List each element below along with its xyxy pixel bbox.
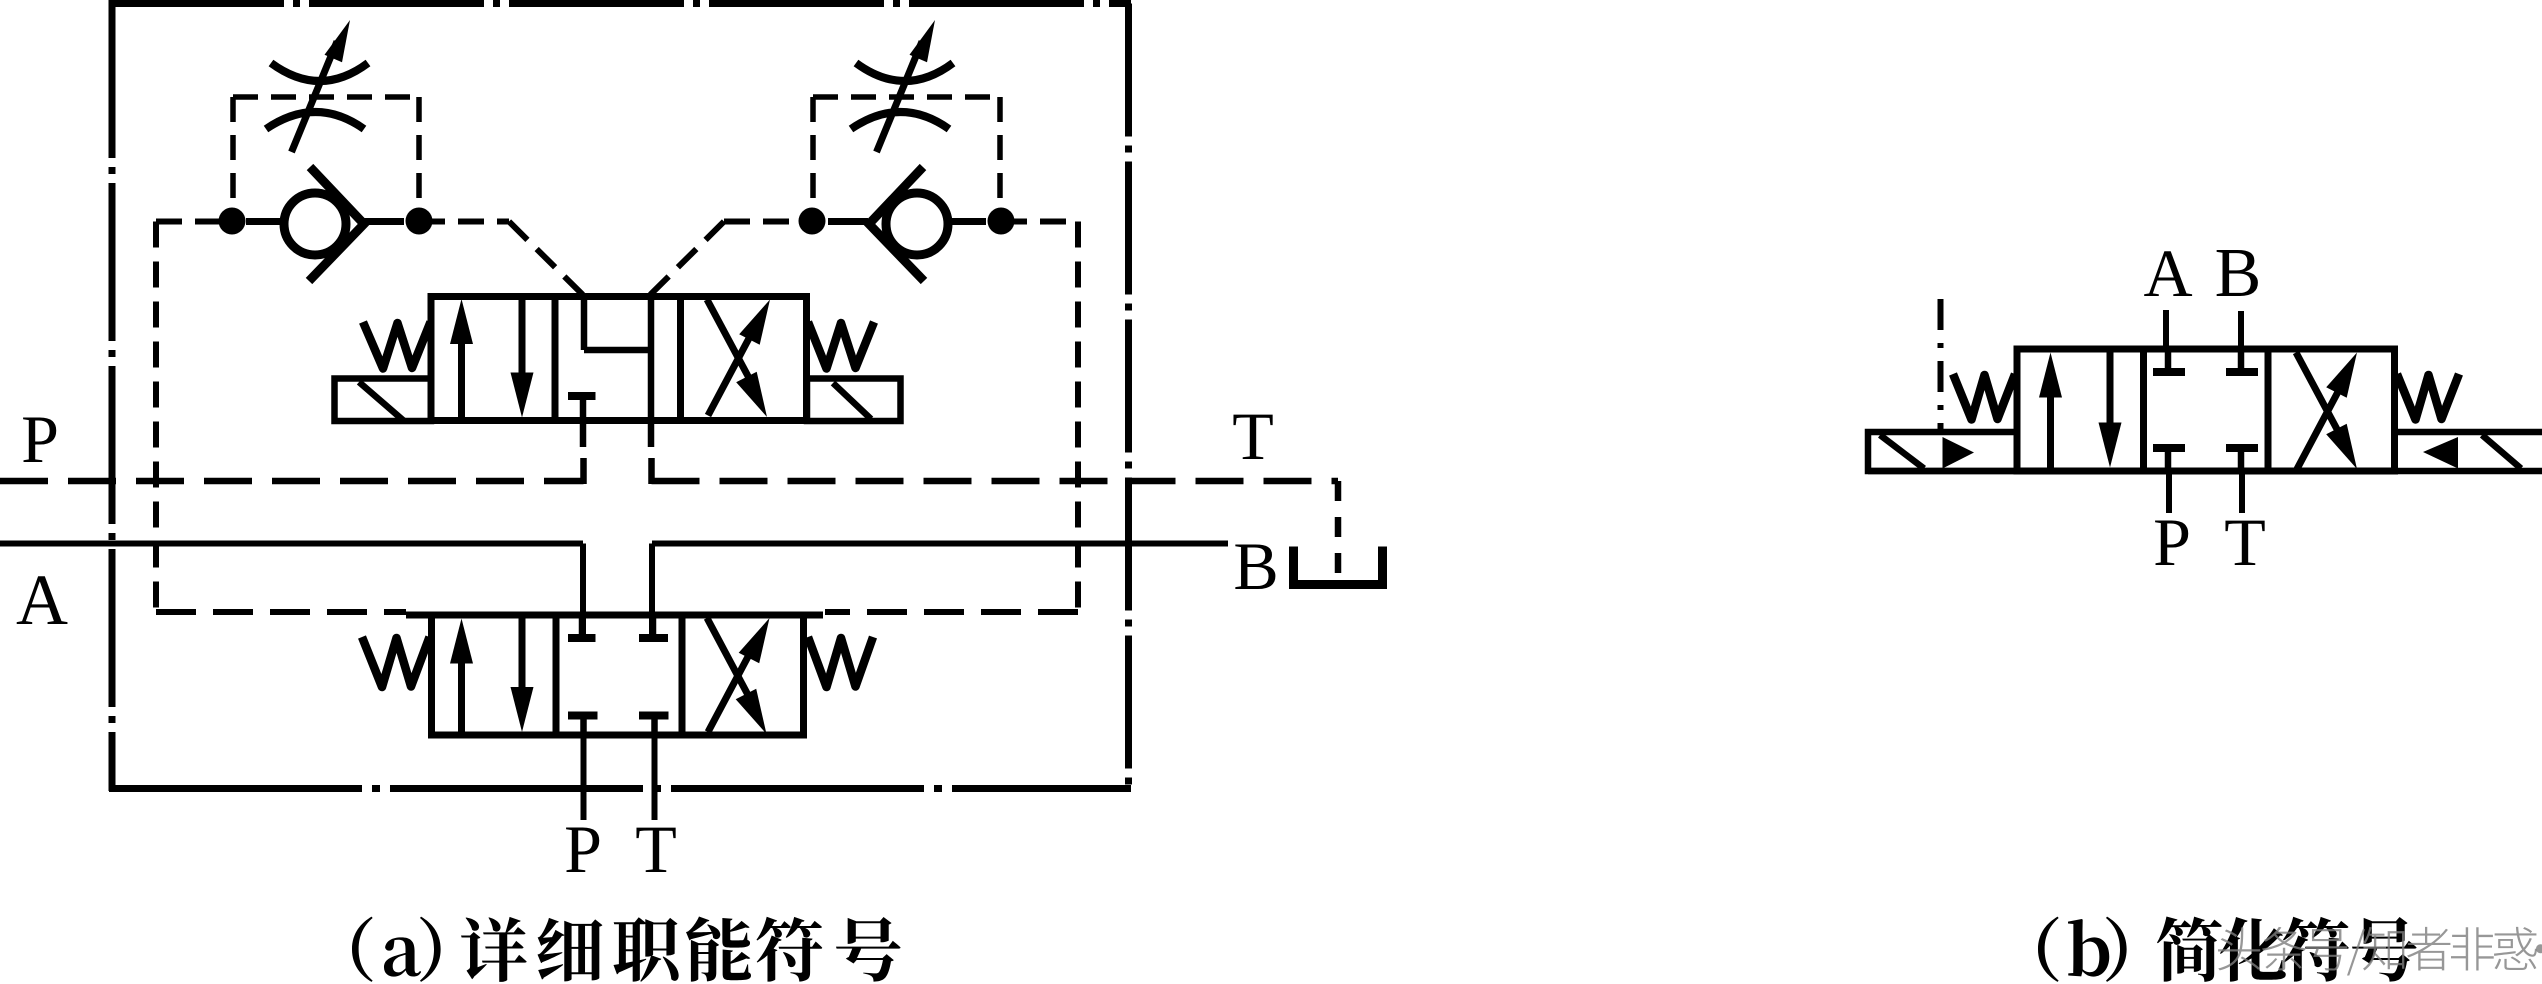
wire: B line (solid, y=543.5) [652, 541, 1228, 547]
wire: V2 P-stem to port P [581, 735, 587, 820]
valve V3 position-b crossed arrows [2296, 353, 2357, 470]
spring left of V3 (W) [1953, 374, 2015, 420]
svg-text:P: P [564, 811, 602, 887]
leader A to V3 [2163, 310, 2169, 349]
enclosure boundary (dash-dot) top edge [109, 0, 1131, 7]
leader B to V3 [2238, 311, 2244, 349]
wire: J2 to A-port diagonal (dashed) [419, 219, 509, 225]
svg-text:A: A [2143, 235, 2192, 311]
wire: right pilot drop x=1078 (dashed) [1075, 222, 1081, 613]
wire: J3 to B-port diagonal (dashed) [724, 219, 812, 225]
check valve CV2 (bypass of RT2) [828, 167, 986, 281]
watermark 头条号/知者非惑 [2218, 927, 2542, 976]
solenoid+pilot box left of V3 [1868, 432, 2017, 471]
svg-text:T: T [2224, 504, 2266, 580]
valve V2 center position (all ports blocked) [568, 615, 669, 735]
caption (b) 简化符号 [2038, 917, 2417, 982]
valve V1 body (3 position boxes) [431, 297, 807, 421]
tank T1 (drain) [1294, 547, 1383, 585]
svg-text:T: T [635, 811, 677, 887]
check valve CV1 (bypass of RT1) [246, 167, 404, 281]
valve V3 body (3 position boxes) [2017, 349, 2395, 471]
caption (a) 详细职能符号 [352, 917, 901, 982]
valve V3 center position (all ports blocked) [2153, 349, 2258, 471]
wire: T line drop to tank (dashed) [1335, 481, 1342, 578]
wire: V2 T-stem to port T [652, 735, 658, 820]
solenoid left of V1 [335, 379, 432, 422]
enclosure boundary right edge [1125, 4, 1132, 792]
valve V2 position-a flow arrows [450, 619, 534, 733]
wire: V1 P-stub down (solid+dash) [580, 421, 587, 448]
svg-text:B: B [1233, 528, 1278, 604]
node J2 (junction dot) [406, 208, 433, 235]
svg-text:P: P [2153, 504, 2191, 580]
wire: left pilot drop x=156 (dashed) [153, 222, 159, 613]
spring left of V1 (W) [363, 322, 431, 369]
wire: A line (solid, y=543.5) [0, 541, 583, 547]
dashed enclosure box of RT1/CV1 [233, 97, 419, 208]
valve V1 center position (A,B to T; P blocked) [568, 297, 651, 421]
svg-text:A: A [16, 560, 68, 640]
valve V2 position-b crossed arrows [707, 618, 770, 734]
node J3 (junction dot) [799, 208, 826, 235]
spring right of V1 (W) [808, 322, 874, 369]
dashed enclosure box of RT2/CV2 [813, 97, 1000, 208]
spring left of V2 (W) [362, 637, 430, 687]
spring right of V2 (W) [808, 637, 873, 687]
throttle valve RT1 (adjustable, arrow) left [266, 20, 368, 152]
svg-text:P: P [21, 401, 59, 477]
throttle valve RT2 (adjustable, arrow) right [851, 20, 953, 152]
wire: P supply line (dashed, y=481) [0, 478, 584, 485]
leader P from V3 [2166, 471, 2172, 513]
valve V1 position-b crossed arrows (P-B, A-T) [707, 300, 770, 418]
enclosure boundary left edge [109, 0, 116, 791]
spring right of V3 (W) [2397, 374, 2459, 420]
wire: V1 T-stub down (solid+dash) [648, 421, 655, 448]
leader T from V3 [2239, 471, 2245, 513]
solenoid right of V1 [807, 379, 901, 422]
pilot line into V3 (dash-dot) [1938, 299, 1944, 432]
wire: T return line (dashed, y=481) [652, 478, 1339, 485]
solenoid+pilot box right of V3 [1868, 432, 2542, 471]
wire: left pilot horizontal to valve V2 (dashed) [156, 609, 406, 615]
valve V1 position-a flow arrows (P-A, B-T) [450, 299, 534, 418]
valve V3 position-a flow arrows [2039, 353, 2122, 468]
svg-text:T: T [1232, 398, 1274, 474]
wire: right pilot horizontal to valve V2 (dashed) [825, 609, 1078, 615]
valve V2 body (3 position boxes) [432, 615, 804, 735]
wire: J1 to left pilot corner (dashed) [156, 219, 232, 225]
svg-text:B: B [2215, 235, 2262, 312]
node J4 (junction dot) [988, 208, 1015, 235]
node J1 (junction dot) [219, 208, 246, 235]
wire: J4 to right pilot corner (dashed) [1001, 219, 1078, 225]
enclosure boundary bottom edge [109, 785, 1131, 792]
